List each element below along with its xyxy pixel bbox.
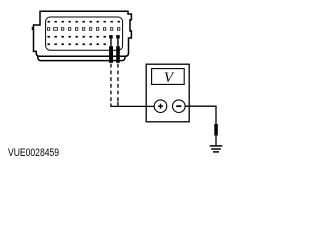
voltmeter V1 case (146, 64, 189, 122)
probe lead (dashed) from P1 (110, 64, 112, 104)
wire: minus terminal to ground drop (185, 106, 216, 124)
connector bottom lip (38, 56, 125, 60)
pin row 1 (48, 21, 120, 23)
wire: junction to voltmeter plus terminal (118, 102, 154, 107)
probe lead (dashed) from P2 (117, 64, 119, 102)
svg-text:V: V (164, 70, 175, 86)
voltmeter plus terminal (154, 100, 167, 113)
connector J1 outer shell (34, 11, 132, 56)
connector inner face (46, 17, 123, 50)
voltmeter display window (152, 69, 185, 85)
connector left clip tab (32, 27, 34, 29)
pin row 3 (48, 36, 106, 38)
ground symbol (210, 146, 223, 152)
pin row 4 (48, 43, 106, 45)
voltmeter minus terminal (173, 100, 186, 113)
wire: ground probe to ground symbol (215, 136, 217, 146)
wire: P1 lead corner to junction (111, 104, 118, 107)
ground probe body (214, 124, 218, 136)
test probe P2 (right) (116, 35, 120, 63)
figure number label VUE0028459 (8, 147, 59, 159)
test probe P1 (left) (109, 35, 113, 63)
pin row 2 (open sockets) (47, 28, 120, 31)
